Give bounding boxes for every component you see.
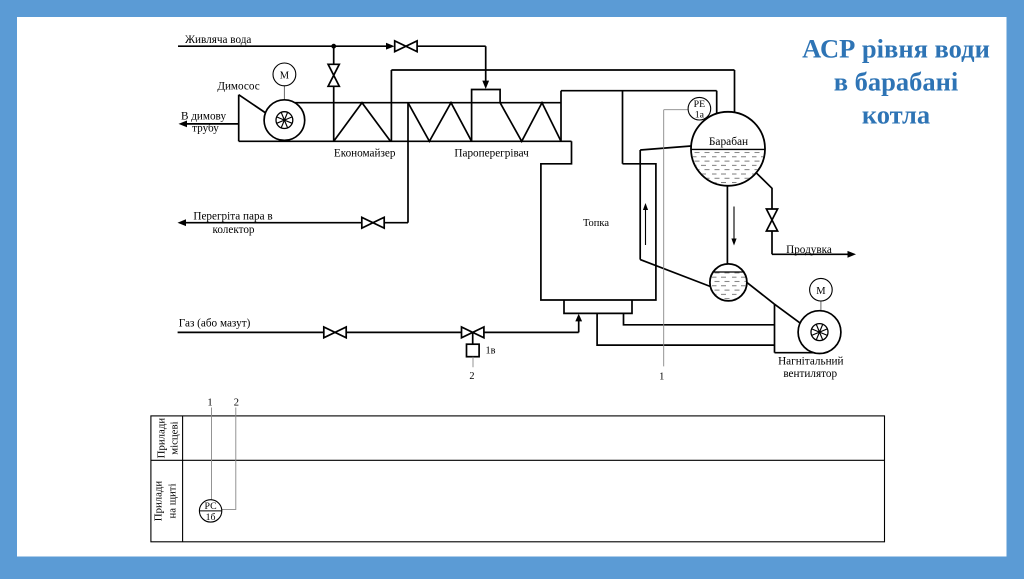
svg-text:2: 2	[469, 371, 474, 382]
svg-text:Перегріта пара в: Перегріта пара в	[193, 210, 272, 222]
svg-text:АСР рівня води: АСР рівня води	[802, 34, 990, 64]
svg-text:вентилятор: вентилятор	[783, 368, 837, 380]
svg-text:1а: 1а	[695, 110, 705, 121]
svg-text:Барабан: Барабан	[709, 136, 748, 148]
svg-text:1: 1	[659, 372, 664, 383]
svg-text:1в: 1в	[486, 346, 496, 357]
svg-text:1б: 1б	[206, 512, 216, 523]
svg-text:колектор: колектор	[212, 224, 254, 236]
svg-text:котла: котла	[862, 100, 930, 130]
svg-text:Газ (або мазут): Газ (або мазут)	[179, 318, 251, 330]
svg-text:Продувка: Продувка	[786, 244, 832, 256]
svg-text:Пароперегрівач: Пароперегрівач	[454, 147, 529, 159]
svg-text:2: 2	[234, 398, 239, 409]
svg-text:Живляча вода: Живляча вода	[185, 34, 251, 46]
svg-text:Топка: Топка	[583, 218, 609, 229]
svg-text:Прилади: Прилади	[153, 481, 165, 522]
svg-text:РС: РС	[205, 501, 217, 512]
svg-text:М: М	[280, 71, 290, 82]
svg-text:місцеві: місцеві	[169, 421, 181, 454]
svg-text:В димову: В димову	[181, 111, 227, 123]
svg-text:М: М	[816, 286, 826, 297]
svg-text:на щиті: на щиті	[167, 483, 179, 518]
svg-text:РЕ: РЕ	[694, 99, 705, 110]
svg-text:Нагнітальний: Нагнітальний	[778, 356, 843, 368]
svg-text:Димосос: Димосос	[217, 81, 259, 93]
svg-text:Економайзер: Економайзер	[334, 147, 396, 159]
svg-text:Прилади: Прилади	[156, 418, 168, 459]
svg-text:1: 1	[207, 398, 212, 409]
svg-text:в барабані: в барабані	[834, 67, 959, 97]
svg-text:трубу: трубу	[192, 122, 219, 134]
